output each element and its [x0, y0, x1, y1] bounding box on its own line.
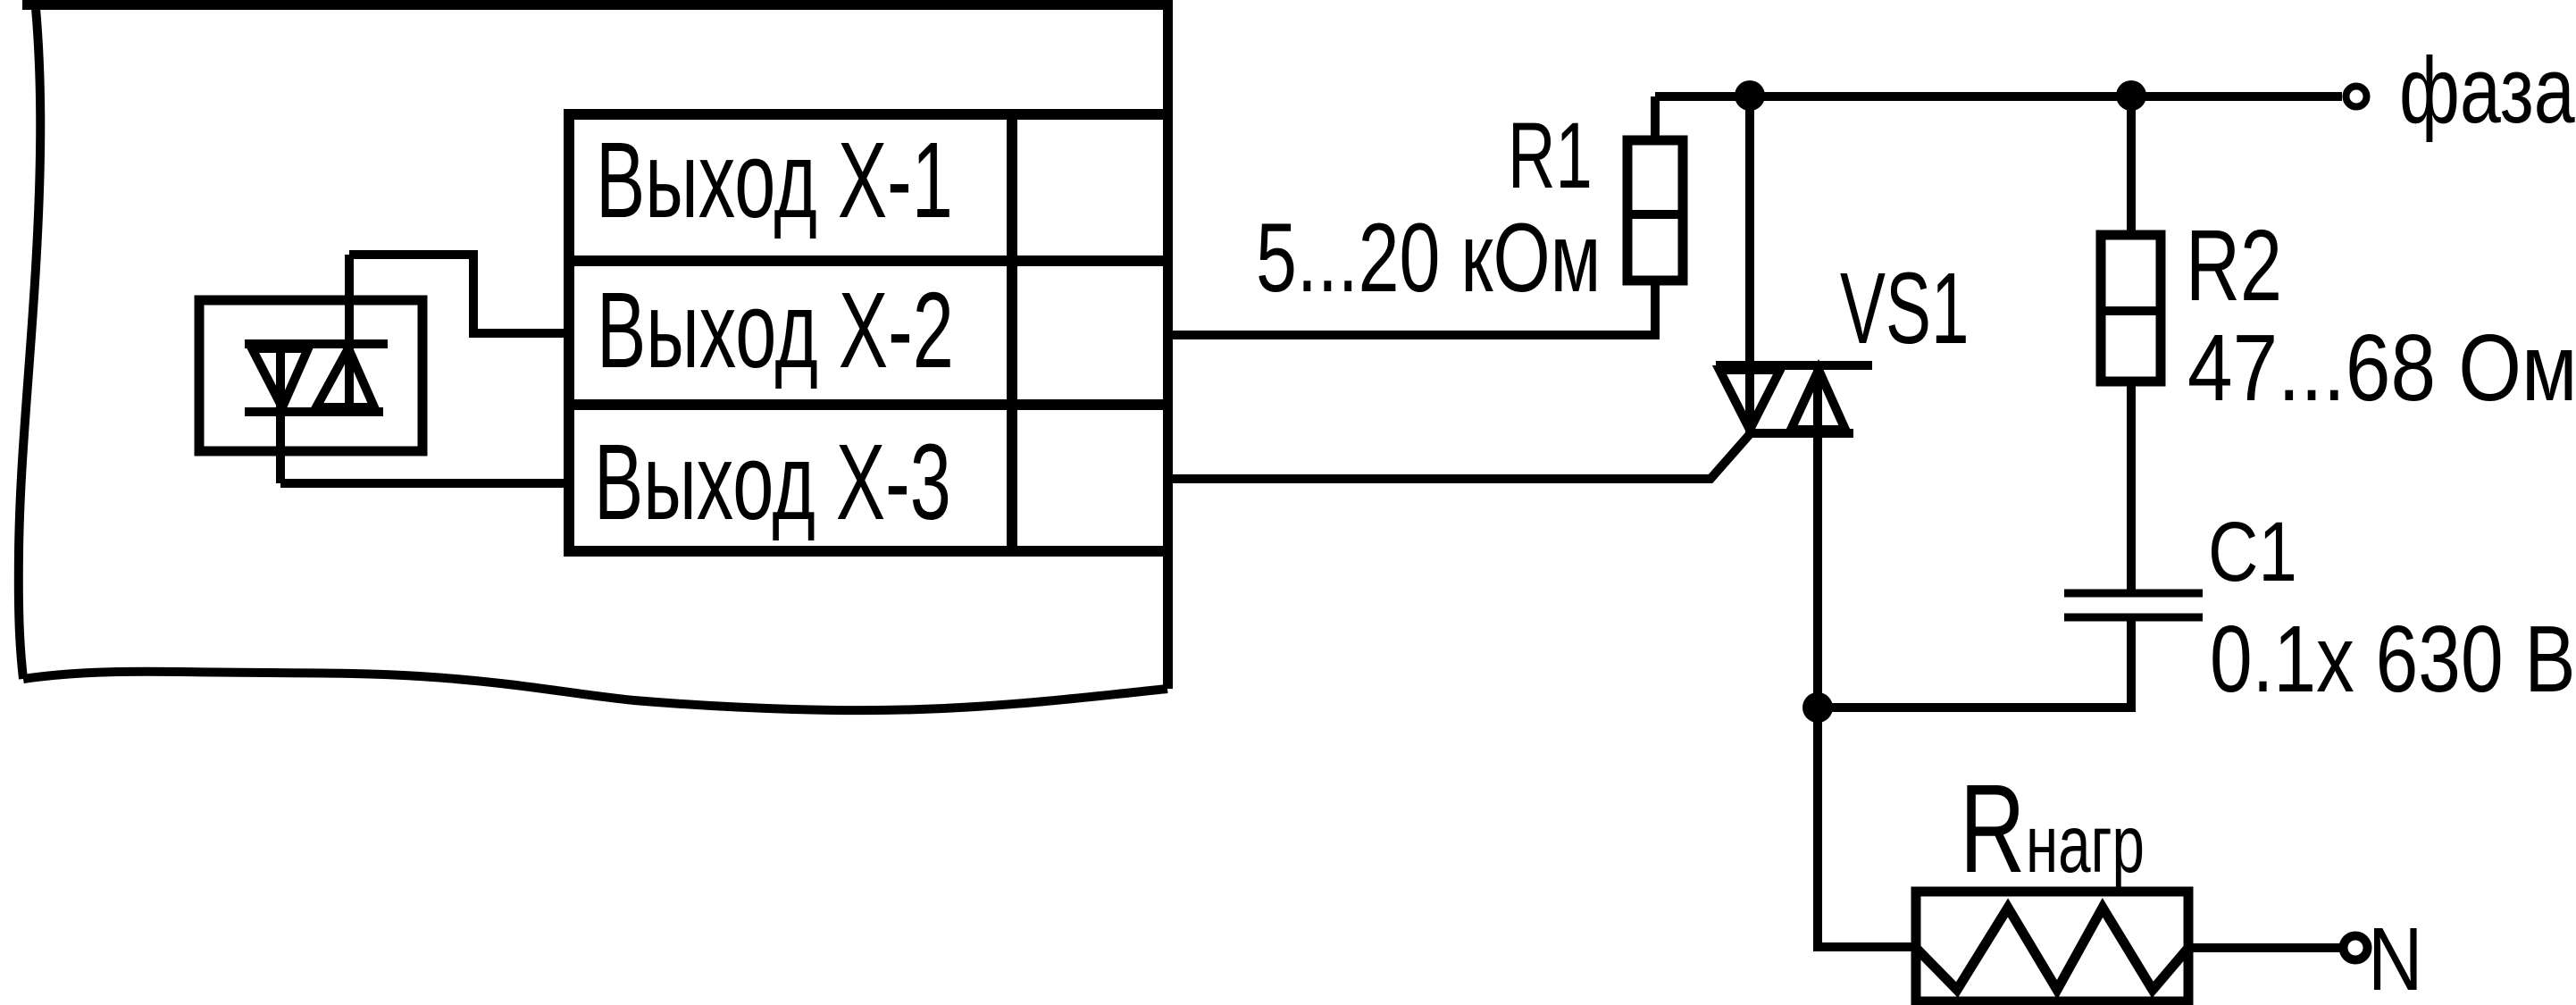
resistor Rнагр box — [1916, 892, 2188, 1001]
device outline bottom torn edge — [23, 672, 1167, 710]
triac VS1 top bar — [1716, 361, 1872, 370]
node junction C1 branch — [1802, 692, 1833, 723]
node junction VS1 branch — [1735, 80, 1765, 111]
table row divider 2 — [569, 399, 1168, 410]
svg-text:Выход Х-3: Выход Х-3 — [594, 421, 951, 541]
node junction R2 branch — [2116, 80, 2146, 111]
resistor R1 middle line — [1627, 210, 1683, 219]
wire VS1 gate to Выход Х-3 — [1168, 434, 1750, 479]
wire R2 top lead — [2127, 96, 2136, 235]
wire Rload to N — [2188, 943, 2341, 952]
optocoupler left terminal line — [276, 344, 285, 483]
device outline top bar — [22, 0, 1173, 10]
resistor R1 box — [1627, 140, 1683, 281]
triac VS1 right triangle — [1791, 370, 1845, 430]
svg-text:Выход Х-1: Выход Х-1 — [596, 119, 953, 239]
optocoupler triac right triangle — [316, 348, 374, 407]
svg-text:47...68 Ом: 47...68 Ом — [2187, 314, 2576, 420]
wire Выход Х-2 to R1 — [1168, 281, 1655, 335]
terminal table frame — [569, 114, 1168, 551]
optocoupler U1 box — [199, 300, 422, 451]
capacitor C1 bottom plate — [2064, 614, 2203, 622]
svg-text:0.1x 630 В: 0.1x 630 В — [2210, 607, 2575, 712]
wire VS1 lower terminal — [1813, 365, 1822, 947]
optocoupler triac bottom bar — [245, 407, 383, 416]
wire junction to Rload — [1818, 708, 1916, 947]
svg-text:N: N — [2368, 909, 2422, 1005]
table row divider 1 — [569, 255, 1168, 266]
svg-text:VS1: VS1 — [1840, 252, 1969, 365]
svg-text:Выход Х-2: Выход Х-2 — [597, 269, 954, 389]
terminal N — [2344, 936, 2368, 960]
wire optocoupler to Выход Х-3 — [280, 479, 569, 488]
triac VS1 bottom bar — [1747, 429, 1853, 438]
svg-text:5...20 кОм: 5...20 кОм — [1256, 203, 1601, 313]
wire C1 bottom to junction — [1818, 617, 2131, 708]
svg-text:C1: C1 — [2208, 505, 2297, 599]
optocoupler triac left triangle — [252, 348, 308, 407]
svg-text:R2: R2 — [2186, 209, 2282, 322]
resistor R2 box — [2101, 235, 2161, 381]
triac VS1 left triangle — [1719, 370, 1780, 430]
capacitor C1 top plate — [2064, 590, 2203, 598]
wire R2 to C1 — [2127, 381, 2136, 593]
terminal фаза — [2346, 87, 2367, 107]
svg-text:фаза: фаза — [2399, 39, 2575, 144]
device outline left torn edge — [19, 8, 40, 679]
resistor Rнагр zigzag — [1916, 908, 2188, 990]
optocoupler right terminal line — [345, 255, 354, 412]
wire optocoupler to Выход Х-2 — [349, 255, 569, 333]
wire junction to VS1 — [1745, 96, 1754, 434]
wire R1 top lead — [1651, 96, 1660, 140]
svg-text:R1: R1 — [1508, 105, 1593, 209]
svg-text:нагр: нагр — [2026, 798, 2145, 889]
optocoupler triac top bar — [245, 339, 388, 348]
device outline right edge — [1163, 0, 1173, 689]
svg-text:R: R — [1960, 759, 2025, 900]
resistor R2 middle line — [2101, 306, 2161, 315]
wire phase line — [1655, 92, 2342, 101]
table column divider — [1007, 114, 1017, 551]
